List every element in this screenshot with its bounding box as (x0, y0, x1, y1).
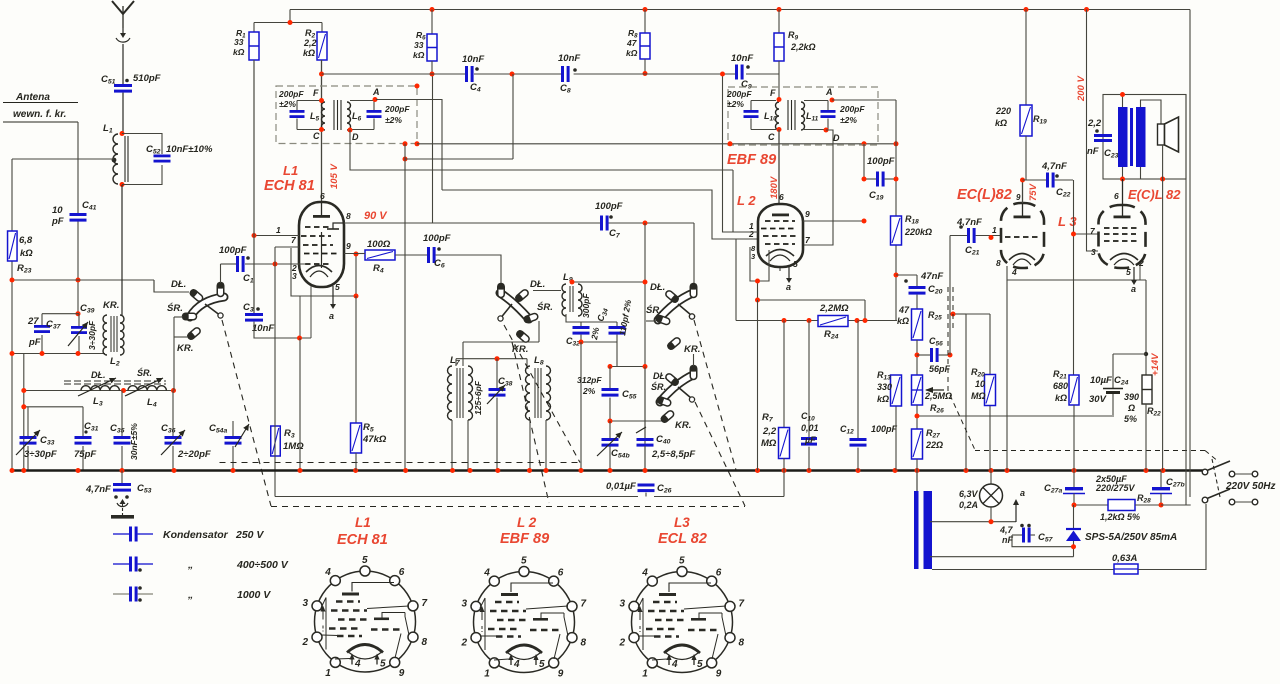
resistor R27 (912, 429, 923, 459)
capacitor C21 (976, 235, 1001, 237)
capacitor C40 trimmer (644, 367, 646, 439)
svg-text:6: 6 (320, 191, 325, 201)
wire left AVC (24, 406, 83, 408)
wire L7 legs (451, 420, 453, 471)
svg-text:a: a (329, 311, 334, 321)
inductor L1 (113, 134, 118, 184)
wire R1-R2 rail (254, 22, 322, 24)
svg-text:100pF: 100pF (867, 156, 895, 167)
wire L3 L4 line (24, 390, 174, 392)
svg-text:10µF: 10µF (1090, 375, 1112, 386)
svg-text:0,2A: 0,2A (959, 500, 978, 510)
svg-text:82: 82 (1166, 187, 1181, 202)
svg-text:5: 5 (679, 556, 685, 567)
wire x694 rotor3 top (693, 223, 695, 285)
svg-text:6: 6 (779, 192, 784, 202)
wire x645 long vertical (644, 223, 646, 471)
switch rotor3 KR contact (667, 337, 682, 351)
svg-text:4: 4 (513, 659, 520, 670)
svg-text:6,8: 6,8 (19, 235, 33, 246)
svg-text:L1: L1 (283, 163, 298, 178)
svg-text:kΩ: kΩ (20, 248, 33, 259)
svg-text:4,7nF: 4,7nF (956, 217, 982, 228)
svg-text:ŚR.: ŚR. (651, 381, 666, 392)
wire L1 tank loop (122, 134, 162, 155)
capacitor C20 (909, 286, 926, 289)
svg-text:220: 220 (995, 106, 1011, 116)
wire y421 KR (610, 420, 664, 422)
svg-text:2,5MΩ: 2,5MΩ (924, 391, 952, 401)
wire EBF89 cathode down (788, 267, 790, 272)
lamp 6.3V (990, 471, 992, 485)
svg-text:ŚR.: ŚR. (646, 304, 662, 316)
svg-text:7: 7 (738, 599, 744, 610)
capacitor C35 (114, 436, 131, 439)
diode SPS-5A (1073, 505, 1075, 530)
tube EBF89 anode (772, 214, 789, 217)
wire R19 branch (1025, 10, 1027, 106)
svg-text:L 2: L 2 (737, 193, 756, 208)
tube EBF89 grids (765, 220, 795, 222)
socket ECL82 (632, 572, 733, 673)
wire IF2 right tank (804, 100, 828, 102)
inductor L2 oscillator coil (103, 315, 107, 355)
inductor L11 (801, 102, 805, 130)
wire x405 AVC vertical (404, 144, 406, 471)
tube ECL82p grids (1104, 227, 1140, 229)
wire R8 down (644, 59, 646, 74)
inductor L9 (562, 284, 566, 316)
svg-text:1MΩ: 1MΩ (283, 441, 304, 452)
wire C55 branch (609, 367, 611, 389)
svg-text:KR.: KR. (177, 343, 193, 354)
svg-text:10: 10 (975, 379, 985, 389)
wire x24 AVC vertical (23, 354, 25, 471)
tube ECH81 grids (305, 226, 331, 228)
inductor L4 (128, 386, 166, 391)
wire A2 to detector (832, 99, 896, 101)
svg-text:C: C (768, 132, 775, 142)
op-amp U3 tube ECL82 triode envelope (1001, 203, 1044, 268)
svg-text:a: a (1020, 488, 1025, 498)
wire ECL82p cathode down (1133, 267, 1135, 274)
wire C1 line (221, 263, 237, 265)
svg-text:C: C (313, 131, 320, 141)
wire ECL82t cathode down (1007, 266, 1146, 280)
wire EBF89 pin5 down (779, 267, 781, 271)
svg-text:4,7nF: 4,7nF (1041, 161, 1067, 172)
socket ECH81 (315, 571, 416, 672)
wire L8 legs (529, 420, 531, 471)
resistor R9 (778, 10, 780, 34)
svg-text:kΩ: kΩ (233, 47, 245, 57)
legend capacitor 250V (113, 533, 129, 535)
svg-text:Antena: Antena (15, 92, 50, 103)
svg-text:30V: 30V (1089, 394, 1107, 405)
svg-text:7: 7 (580, 599, 586, 610)
wire EBF89 pin6 (778, 130, 780, 205)
svg-text:105 V: 105 V (329, 164, 340, 189)
wire L3 L4 core dashes (64, 380, 166, 382)
svg-text:DŁ.: DŁ. (650, 282, 665, 293)
wire IF1 right tank (350, 100, 374, 102)
wire linkage horizontal 1 (220, 462, 581, 464)
svg-text:nF: nF (1087, 146, 1099, 157)
svg-text:1: 1 (325, 668, 331, 679)
wire heater a (990, 507, 992, 522)
wire L9 bottom to caps (566, 314, 617, 322)
capacitor C37 (34, 325, 50, 328)
svg-text:312pF: 312pF (577, 375, 602, 385)
resistor R13 (891, 375, 902, 406)
svg-text:47kΩ: 47kΩ (362, 434, 387, 445)
capacitor C9 (735, 65, 738, 80)
svg-text:MΩ: MΩ (971, 391, 986, 401)
wire pentode screen (1087, 245, 1099, 251)
wire switch linkage rotor1 (222, 320, 271, 506)
svg-text:pF: pF (28, 337, 41, 348)
svg-text:75pF: 75pF (74, 449, 96, 460)
svg-text:+14V: +14V (1150, 353, 1161, 376)
svg-text:4: 4 (641, 567, 648, 578)
wire C41 branch (77, 122, 79, 213)
svg-text:4: 4 (324, 567, 331, 578)
wire switch linkage rotor4 (695, 402, 745, 506)
svg-text:a: a (1131, 284, 1136, 294)
svg-text:D: D (352, 132, 359, 142)
wire R28 to frame (1161, 504, 1191, 506)
wire ECL82t top (1022, 180, 1024, 203)
svg-text:2,2: 2,2 (762, 426, 777, 437)
op-amp U2 tube EBF89 envelope (758, 204, 803, 267)
wire volume linkage diag (950, 395, 975, 450)
tube ECL82p anode (1114, 216, 1131, 219)
svg-text:ECL 82: ECL 82 (658, 531, 707, 547)
wire C20 branch (896, 274, 917, 276)
op-amp U4 tube ECL82 pentode envelope (1099, 205, 1146, 268)
capacitor C51 (114, 84, 132, 87)
svg-text:A: A (825, 87, 833, 97)
svg-text:33: 33 (234, 37, 244, 47)
wire C54a branch (232, 421, 234, 436)
svg-text:1: 1 (642, 669, 648, 680)
svg-text:EC(L)82: EC(L)82 (957, 187, 1012, 203)
capacitor C23 (1094, 134, 1112, 137)
capacitor C39 trimmer (71, 326, 87, 329)
svg-text:0,01µF: 0,01µF (606, 481, 636, 492)
svg-text:47nF: 47nF (920, 271, 943, 282)
svg-text:6: 6 (558, 567, 564, 578)
capacitor IF2 left 200pF (744, 110, 759, 113)
svg-text:5: 5 (539, 659, 545, 670)
wire C3 bottom (254, 322, 311, 338)
svg-text:22Ω: 22Ω (925, 440, 943, 450)
svg-text:2,2: 2,2 (1087, 118, 1102, 129)
svg-text:2,5÷8,5pF: 2,5÷8,5pF (651, 449, 695, 460)
wire IF2 left tank (751, 100, 776, 102)
wire HT winding (930, 556, 1074, 558)
switch rotor4 KR contact (660, 410, 675, 424)
tube ECH81 screen pin8 (333, 223, 344, 229)
wire rotor1 SR KR (174, 316, 183, 318)
wire R20 branch (966, 313, 990, 315)
wire A node to x442 (376, 100, 442, 191)
inductor L7 (448, 366, 453, 420)
svg-text:KR.: KR. (684, 344, 700, 355)
wire R26 to R27 (916, 405, 918, 429)
op-amp U1 tube ECH81 envelope (299, 202, 344, 287)
capacitor C32 (573, 326, 590, 329)
svg-text:5: 5 (697, 659, 703, 670)
wire x966 to bus (965, 314, 967, 471)
svg-text:100pF: 100pF (871, 424, 898, 434)
wire fuse to switch (1138, 504, 1206, 570)
tube ECH81 cathode (306, 266, 332, 273)
svg-text:ŚR.: ŚR. (167, 302, 183, 314)
capacitor C54b trimmer (602, 438, 619, 441)
svg-text:2: 2 (461, 637, 468, 648)
svg-text:200pF: 200pF (278, 89, 304, 99)
svg-text:30nF±5%: 30nF±5% (129, 423, 139, 460)
wire y223 (344, 222, 600, 224)
capacitor C41 (70, 213, 87, 216)
wire EBF89 heater box (750, 247, 769, 281)
resistor R22 (1142, 375, 1152, 404)
svg-text:200pF: 200pF (726, 89, 752, 99)
svg-text:1000 V: 1000 V (237, 589, 271, 601)
svg-text:2,2kΩ: 2,2kΩ (790, 42, 816, 52)
inductor L5 (322, 102, 326, 130)
wire C20 to R25 (916, 295, 918, 309)
svg-text:6: 6 (716, 567, 722, 578)
capacitor C57 (1012, 534, 1022, 536)
svg-text:DŁ.: DŁ. (171, 279, 186, 290)
svg-text:kΩ: kΩ (877, 394, 889, 404)
svg-text:390: 390 (1124, 392, 1139, 402)
svg-text:F: F (313, 88, 319, 98)
antenna (112, 1, 134, 14)
svg-text:„: „ (187, 589, 193, 601)
svg-text:100Ω: 100Ω (367, 239, 391, 250)
svg-text:33: 33 (414, 40, 424, 50)
wire C31 branch (82, 407, 84, 436)
svg-text:±2%: ±2% (385, 115, 402, 125)
svg-text:100pF: 100pF (595, 201, 623, 212)
svg-text:9: 9 (716, 669, 722, 680)
svg-text:kΩ: kΩ (303, 48, 315, 58)
wire D node down (350, 130, 733, 170)
wire ECH81 pin7 (275, 246, 299, 248)
svg-text:4,7nF: 4,7nF (85, 484, 111, 495)
svg-text:5: 5 (521, 556, 527, 567)
wire C35 branch (121, 391, 123, 437)
wire x617 join (616, 342, 618, 367)
wire L9 top (572, 281, 645, 283)
frame speaker box (1103, 95, 1186, 180)
wire ground bus (11, 469, 1203, 472)
svg-text:KR.: KR. (675, 420, 691, 431)
svg-text:wewn. f. kr.: wewn. f. kr. (13, 109, 66, 120)
wire volume linkage dashed (947, 287, 949, 395)
switch rotor 2 (500, 293, 529, 319)
capacitor C55 (602, 388, 619, 391)
svg-text:5: 5 (1126, 267, 1131, 277)
capacitor C54a trimmer (225, 436, 242, 439)
svg-text:3: 3 (1091, 247, 1096, 257)
wire ECL82p cathode net (1139, 266, 1141, 280)
tube ECH81 anode (313, 215, 330, 218)
svg-text:A: A (372, 87, 380, 97)
resistor R21 (1069, 375, 1079, 405)
speaker LS (1158, 124, 1165, 145)
svg-text:47: 47 (898, 305, 910, 315)
svg-text:4,7: 4,7 (999, 525, 1014, 535)
svg-text:3: 3 (620, 599, 626, 610)
svg-text:10nF: 10nF (462, 54, 484, 65)
tube ECL82t anode (1014, 216, 1031, 219)
svg-text:DŁ.: DŁ. (530, 279, 545, 290)
wire C33 branch (27, 407, 29, 437)
svg-text:8: 8 (346, 211, 351, 221)
wire switch linkage rotor2b (512, 342, 549, 503)
resistor R23 (8, 231, 17, 261)
svg-text:ECH 81: ECH 81 (337, 532, 388, 548)
svg-text:kΩ: kΩ (626, 48, 638, 58)
svg-text:8: 8 (580, 637, 586, 648)
svg-text:L1: L1 (355, 515, 371, 530)
svg-text:510pF: 510pF (133, 73, 161, 84)
capacitor C1 (236, 256, 239, 272)
wire linkage horizontal 2 (271, 506, 745, 508)
tube ECL82p cathode (1110, 254, 1138, 261)
svg-text:56pF: 56pF (929, 364, 951, 374)
wire EBF89 cathode bottom (758, 299, 866, 301)
capacitor C4 (465, 66, 468, 82)
wire switch linkage rotor3 (694, 320, 736, 470)
svg-text:6,3V: 6,3V (959, 489, 979, 499)
svg-text:4: 4 (671, 659, 678, 670)
svg-text:10nF±10%: 10nF±10% (166, 144, 213, 155)
tube EBF89 cathode (766, 250, 794, 257)
svg-text:680: 680 (1053, 381, 1068, 391)
svg-text:10: 10 (52, 205, 63, 216)
wire ECH81 pin1 (254, 235, 299, 237)
tube ECL82t cathode (1009, 254, 1035, 261)
svg-text:3: 3 (462, 599, 468, 610)
wire rotor1 DL feed (154, 280, 189, 292)
svg-text:pF: pF (51, 216, 64, 227)
legend capacitor 400-500V (113, 563, 129, 565)
svg-text:4: 4 (1011, 267, 1017, 277)
svg-text:2: 2 (1138, 258, 1144, 268)
node speaker box (1120, 92, 1125, 97)
capacitor IF1 left 200pF (290, 110, 305, 113)
wire rotor4 top (693, 354, 695, 366)
svg-text:8: 8 (738, 637, 744, 648)
svg-text:3: 3 (292, 271, 297, 281)
fuse 0.63A (1114, 564, 1138, 574)
svg-text:2%: 2% (582, 386, 596, 396)
svg-text:200pF: 200pF (839, 104, 865, 114)
capacitor C53 (121, 471, 123, 484)
capacitor C27b (1160, 471, 1162, 488)
wire C36 branch (172, 391, 174, 437)
svg-text:2: 2 (302, 637, 309, 648)
svg-text:DŁ.: DŁ. (91, 370, 106, 380)
inductor L3 (81, 386, 119, 391)
capacitor C26 (638, 484, 655, 487)
switch mains (1202, 469, 1208, 475)
svg-text:5: 5 (335, 282, 340, 292)
svg-text:8: 8 (996, 258, 1001, 268)
wire y367 (610, 366, 645, 368)
wire ECH81 cathode down (332, 286, 334, 300)
wire left frame vertical (11, 159, 13, 231)
resistor R25 (912, 309, 923, 340)
svg-text:L 3: L 3 (1058, 214, 1077, 229)
capacitor C34 (609, 326, 626, 329)
svg-text:ŚR.: ŚR. (137, 367, 152, 378)
wire output transformer legs (1122, 95, 1124, 108)
svg-text:kΩ: kΩ (995, 118, 1007, 128)
legend capacitor 1000V (113, 593, 129, 595)
svg-text:1,2kΩ 5%: 1,2kΩ 5% (1100, 512, 1140, 522)
switch rotor 1 (190, 297, 224, 317)
frame IF transformer 2 dashed box (728, 87, 878, 145)
svg-text:SPS-5A/250V 85mA: SPS-5A/250V 85mA (1085, 532, 1177, 543)
wire x581 to bus (580, 342, 582, 471)
svg-text:4: 4 (483, 567, 490, 578)
svg-text:220/275V: 220/275V (1095, 483, 1136, 493)
resistor R7 (783, 321, 785, 428)
svg-text:±2%: ±2% (727, 99, 744, 109)
svg-text:90 V: 90 V (364, 210, 388, 222)
svg-text:300pF: 300pF (581, 293, 591, 318)
wire IF1 core (333, 100, 335, 130)
resistor R20 (985, 375, 996, 406)
svg-text:D: D (833, 133, 840, 143)
tube ECL82t grid (1005, 236, 1039, 238)
svg-text:ŚR.: ŚR. (537, 301, 553, 313)
wire below bus C26 line (275, 496, 638, 498)
wire C22 to pentode grid (1073, 180, 1075, 375)
wire x865 join (864, 300, 866, 321)
inductor L8 (526, 366, 531, 420)
transformer output T2 (1118, 107, 1128, 167)
wire x299 to bus (299, 338, 301, 471)
wire x896 vertical (895, 100, 897, 179)
svg-text:±2%: ±2% (840, 115, 857, 125)
resistor R3 (271, 426, 281, 456)
wire C37 C39 box (42, 313, 79, 315)
svg-text:330: 330 (877, 382, 892, 392)
svg-text:EBF 89: EBF 89 (500, 531, 549, 547)
wire y74 rail (322, 73, 466, 75)
wire C51 to L1 (122, 93, 124, 133)
svg-text:1: 1 (276, 225, 281, 235)
wire y415 long (917, 415, 1114, 417)
wire R4 to C6 (356, 253, 365, 255)
resistor R2 (321, 23, 323, 33)
socket EBF89 (474, 572, 575, 673)
wire IF2 core (787, 100, 789, 130)
svg-text:kΩ: kΩ (1055, 393, 1067, 403)
inductor L10 (776, 102, 779, 130)
svg-text:7: 7 (421, 598, 427, 609)
svg-text:2: 2 (619, 637, 626, 648)
svg-text:250 V: 250 V (235, 529, 264, 541)
wire C54b branch (609, 421, 611, 438)
